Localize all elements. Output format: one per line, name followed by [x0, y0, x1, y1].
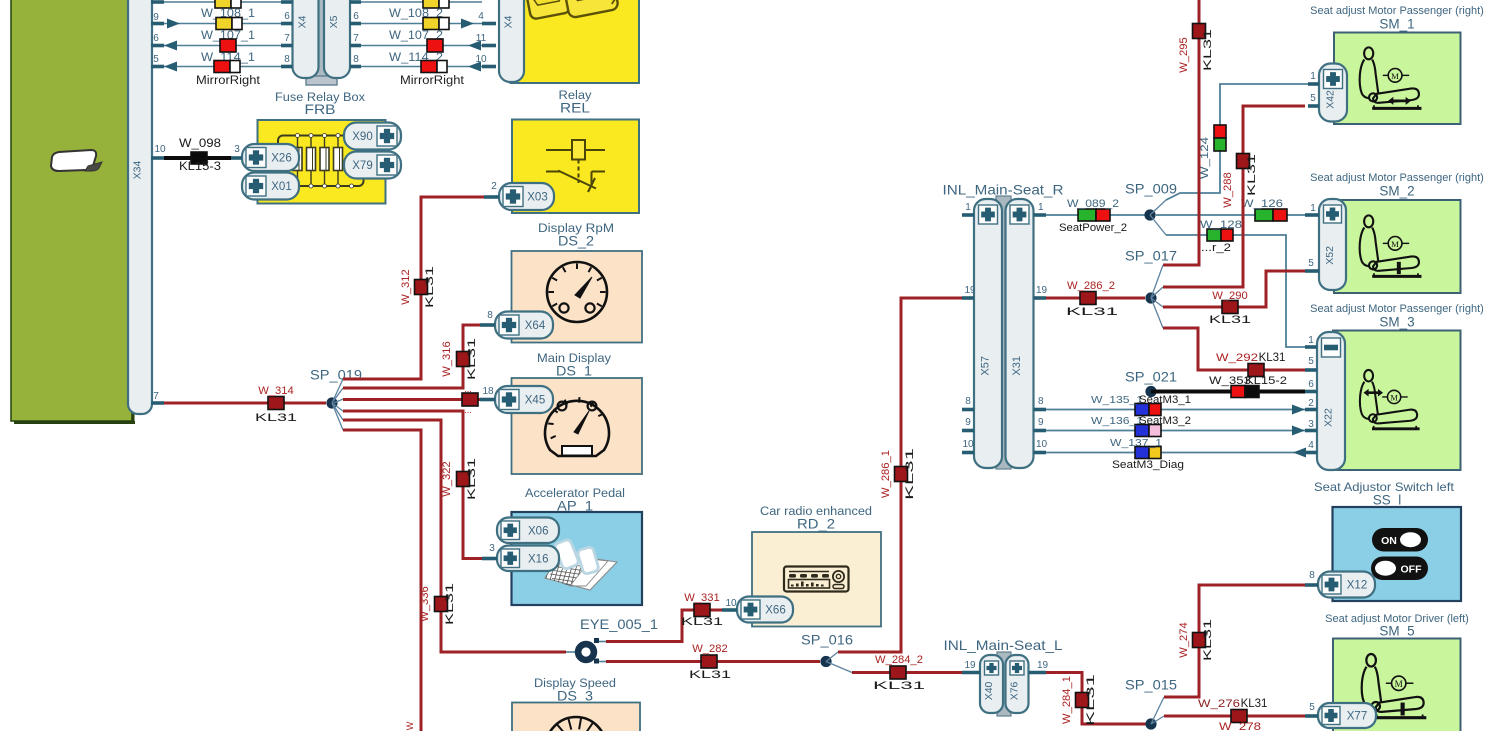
svg-text:Seat adjust Motor Passenger (r: Seat adjust Motor Passenger (right): [1310, 5, 1484, 17]
seat icon SM_2: [1360, 215, 1422, 276]
relay REL body: [512, 120, 639, 214]
svg-text:10: 10: [1036, 439, 1048, 450]
seat motor SM_5 body: [1333, 639, 1461, 734]
svg-text:W_124: W_124: [1199, 137, 1211, 179]
svg-text:W_314: W_314: [258, 385, 293, 397]
wire W_136_1 SeatM3_2 from INL_R pin9 to X22 pin3: [1046, 430, 1305, 432]
car radio RD_2 body: [752, 532, 881, 627]
svg-text:7: 7: [284, 33, 290, 44]
connector X76 (right pill): [1006, 655, 1029, 713]
wire W_290 KL31 from SP_017 to SM_2 X52 pin5: [1163, 271, 1305, 307]
svg-text:9: 9: [1038, 417, 1044, 428]
seat icon SM_5: [1362, 654, 1427, 718]
relay symbol inside REL: [546, 140, 605, 192]
svg-text:7: 7: [353, 33, 359, 44]
svg-text:X90: X90: [352, 131, 372, 143]
svg-text:9: 9: [965, 417, 971, 428]
svg-text:MirrorRight: MirrorRight: [400, 73, 465, 87]
svg-text:19: 19: [1036, 285, 1048, 296]
connector X12 on SS_l: [1318, 572, 1375, 598]
wire W_353 KL15-2 from SP_021 to X22 pin6: [1151, 390, 1305, 394]
svg-text:8: 8: [284, 54, 290, 65]
svg-text:5: 5: [1308, 356, 1314, 367]
svg-text:W_286_2: W_286_2: [1067, 280, 1115, 292]
wire W_126 from SP_009 to SM_2 X52 pin1: [1156, 214, 1305, 216]
svg-text:5: 5: [1310, 93, 1316, 104]
svg-text:Seat adjust Motor Passenger (r: Seat adjust Motor Passenger (right): [1310, 303, 1484, 315]
svg-text:X79: X79: [352, 160, 372, 172]
svg-text:KL31: KL31: [1259, 352, 1286, 364]
wire W_108_1 (yellow/white): [164, 23, 288, 25]
OFF toggle icon: [1371, 557, 1428, 581]
wire W_137_1 SeatM3_Diag from INL_R pin10 to X22 pin4: [1046, 452, 1305, 454]
svg-text:INL_Main-Seat_L: INL_Main-Seat_L: [944, 637, 1063, 653]
radio icon in RD_2: [784, 567, 849, 592]
svg-text:6: 6: [153, 33, 159, 44]
svg-text:5: 5: [1309, 702, 1315, 713]
svg-text:SP_016: SP_016: [801, 633, 853, 648]
wire W_286_1 KL31 from SP_016 to INL_Main-Seat_R pin 19: [838, 298, 962, 652]
svg-text:6: 6: [284, 11, 290, 22]
svg-text:7: 7: [153, 391, 159, 402]
X34 pin (top, cut): [151, 0, 164, 4]
svg-text:X12: X12: [1347, 580, 1367, 592]
svg-text:6: 6: [353, 11, 359, 22]
svg-text:6: 6: [1308, 379, 1314, 390]
svg-text:DS_1: DS_1: [556, 363, 592, 379]
wire W_284_1 KL31 from INL_L to SP_015: [1046, 673, 1146, 725]
svg-text:...: ...: [464, 384, 472, 394]
ON toggle icon: [1372, 528, 1428, 552]
svg-text:W_282: W_282: [692, 643, 727, 655]
svg-text:X64: X64: [525, 320, 546, 332]
wire W_107_1 (red): [164, 45, 288, 47]
svg-text:SP_009: SP_009: [1125, 182, 1177, 197]
svg-text:KL31: KL31: [1209, 314, 1251, 326]
svg-text:3: 3: [489, 543, 495, 554]
svg-text:KL31: KL31: [904, 448, 916, 500]
svg-text:KL31: KL31: [1202, 29, 1214, 71]
svg-text:W_322: W_322: [441, 461, 453, 496]
svg-text:W_089_2: W_089_2: [1067, 198, 1119, 210]
svg-text:X57: X57: [980, 356, 992, 376]
svg-text:KL15-3: KL15-3: [179, 160, 221, 173]
connector X40 (left pill): [980, 655, 1003, 713]
connector X90 on FRB: [344, 123, 401, 150]
svg-text:KL31: KL31: [689, 669, 731, 681]
svg-text:SP_015: SP_015: [1125, 678, 1177, 693]
svg-text:W_290: W_290: [1212, 290, 1247, 302]
connector X22 on SM_3: [1317, 332, 1345, 470]
svg-text:X45: X45: [525, 395, 545, 407]
svg-text:5: 5: [1308, 258, 1314, 269]
wire row top-left (cut) with color block: [164, 1, 288, 3]
wire W_124 from SP_009 to SM_1 X42 pin1: [1166, 84, 1308, 200]
svg-text:SP_017: SP_017: [1125, 249, 1177, 264]
svg-text:KL31: KL31: [255, 412, 297, 424]
FRB inline connector body (gray band): [316, 0, 326, 84]
svg-text:W_098: W_098: [179, 137, 221, 150]
seat icon SM_3: [1360, 370, 1420, 429]
svg-text:10: 10: [475, 54, 487, 65]
svg-text:INL_Main-Seat_R: INL_Main-Seat_R: [943, 182, 1064, 198]
wire W_286_2 KL31 from INL_R pin19 to SP_017: [1046, 297, 1145, 300]
svg-text:X22: X22: [1323, 408, 1335, 427]
SP_019 fan lines: [332, 379, 343, 403]
connector X4 (left pill of FRB top): [293, 0, 319, 78]
svg-text:2: 2: [1308, 398, 1314, 409]
svg-text:ON: ON: [1381, 535, 1397, 547]
svg-text:X26: X26: [271, 153, 291, 165]
wire W_108_2 (yellow/white): [361, 23, 482, 25]
svg-text:8: 8: [1038, 396, 1044, 407]
svg-text:X4: X4: [503, 15, 515, 28]
svg-text:W_137_1: W_137_1: [1110, 437, 1162, 449]
connector X79 on FRB: [344, 152, 401, 179]
svg-text:11: 11: [476, 33, 487, 44]
wire W_114_2 (red/white): [361, 66, 482, 68]
svg-text:X16: X16: [528, 553, 548, 565]
svg-text:KL31: KL31: [1241, 698, 1268, 710]
svg-text:W_331: W_331: [684, 592, 719, 604]
svg-text:3: 3: [234, 144, 240, 155]
gauge icon in DS_3 (cut): [546, 717, 606, 736]
svg-text:W_292: W_292: [1216, 352, 1258, 364]
svg-text:W_284_2: W_284_2: [875, 654, 923, 666]
svg-text:DS_2: DS_2: [558, 233, 594, 249]
seat icon SM_1: [1360, 47, 1422, 108]
wire W_288 KL31 from SP_017 up to SM_1 X42 pin5: [1163, 106, 1305, 287]
svg-text:4: 4: [478, 11, 484, 22]
fuses inside FRB: [297, 136, 299, 187]
svg-text:SP_021: SP_021: [1125, 370, 1177, 385]
svg-text:W_295: W_295: [1178, 37, 1190, 72]
connector X16 on AP_1: [497, 546, 559, 572]
svg-text:X77: X77: [1347, 711, 1367, 723]
svg-text:X66: X66: [765, 605, 785, 617]
wire W_316 KL31 from SP_019 to DS_2 X64: [343, 325, 480, 388]
wire W_276 KL31 from SP_015 to SM_5 X77: [1164, 715, 1305, 718]
svg-text:KL31: KL31: [1246, 154, 1258, 196]
svg-text:RD_2: RD_2: [797, 516, 835, 532]
X4 pin stub top (cut): [281, 0, 293, 4]
relay module box top-right (cut): [511, 0, 640, 83]
svg-text:OFF: OFF: [1401, 564, 1423, 576]
svg-text:W_288: W_288: [1222, 172, 1234, 207]
mirror icon inside ECU: [51, 150, 102, 171]
connector X03 on REL: [499, 183, 554, 210]
svg-text:10: 10: [154, 144, 166, 155]
display DS_1 body: [512, 378, 643, 474]
connector X01 on FRB: [242, 173, 299, 200]
svg-text:10: 10: [725, 598, 737, 609]
display DS_3 body (cut): [512, 703, 640, 736]
svg-text:1: 1: [1310, 71, 1316, 82]
fuse bus loop inside FRB: [278, 136, 364, 187]
svg-text:W: W: [405, 721, 415, 730]
wire W_331 KL31 from EYE to X66: [606, 610, 722, 642]
svg-text:18: 18: [482, 386, 494, 397]
svg-text:KL31: KL31: [444, 583, 456, 625]
wire W_322 KL31 from SP_019 to AP_1 X16: [343, 411, 482, 559]
svg-text:...r_2: ...r_2: [1201, 242, 1231, 254]
wire W_292 KL31 from SP_017 to SM_3 X22 pin5: [1163, 328, 1305, 370]
svg-text:W_135_1: W_135_1: [1091, 394, 1143, 406]
wire W_274 KL31 from SP_015 to SS_l X12: [1164, 585, 1305, 697]
svg-text:SM_1: SM_1: [1379, 17, 1414, 32]
wire W_107_2 (red): [361, 45, 482, 47]
connector X66 on RD_2: [737, 597, 793, 623]
svg-text:W_284_1: W_284_1: [1061, 676, 1073, 724]
connector X06 on AP_1: [497, 518, 559, 544]
svg-text:19: 19: [964, 285, 976, 296]
connector X34 (pill on ECU): [128, 0, 152, 414]
svg-text:...: ...: [464, 405, 472, 415]
display DS_2 body: [512, 251, 643, 343]
svg-text:W_276: W_276: [1198, 698, 1240, 710]
connector X31 (right pill): [1006, 199, 1034, 468]
svg-text:KL31: KL31: [1202, 619, 1214, 661]
svg-text:W_128: W_128: [1200, 219, 1242, 231]
svg-text:SeatPower_2: SeatPower_2: [1059, 222, 1127, 234]
wire W_114_1 (red/white): [164, 66, 288, 68]
svg-text:8: 8: [487, 310, 493, 321]
connector X52 on SM_2: [1319, 199, 1346, 290]
svg-text:SM_2: SM_2: [1379, 184, 1414, 199]
svg-text:W_274: W_274: [1178, 622, 1190, 657]
ECU body left (green box): [11, 0, 132, 421]
svg-text:EYE_005_1: EYE_005_1: [580, 617, 658, 632]
svg-text:X4: X4: [297, 15, 309, 28]
svg-text:X42: X42: [1325, 90, 1337, 109]
svg-text:SeatM3_Diag: SeatM3_Diag: [1112, 459, 1184, 471]
accelerator pedal AP_1 body: [512, 512, 643, 605]
svg-text:REL: REL: [560, 100, 590, 116]
3D relay icon in top-right box: [525, 0, 621, 26]
connector X5 (right pill of FRB top): [324, 0, 350, 78]
svg-text:3: 3: [1308, 419, 1314, 430]
svg-text:X52: X52: [1324, 246, 1336, 265]
svg-text:1: 1: [965, 202, 971, 213]
seat motor SM_2 body: [1334, 200, 1461, 293]
wire W_135_1 SeatM3_1 from INL_R pin8 to X22 pin2: [1046, 409, 1305, 411]
X5 pin stub top (cut): [350, 0, 361, 4]
svg-text:19: 19: [964, 660, 976, 671]
wire W_295 KL31 vertical (cut at top): [1163, 0, 1199, 265]
wire W_098 KL15-3 (black): [164, 156, 231, 160]
seat switch SS_l body: [1333, 507, 1462, 601]
svg-text:5: 5: [153, 54, 159, 65]
svg-text:W_316: W_316: [441, 341, 453, 376]
wire W_284_2 KL31 from SP_016 to INL_Main-Seat_L: [852, 671, 962, 674]
connector X42 on SM_1: [1319, 64, 1347, 122]
svg-text:X06: X06: [528, 525, 548, 537]
svg-text:8: 8: [965, 396, 971, 407]
svg-text:1: 1: [1038, 202, 1044, 213]
wire to DS_1 X45 pin 18 with block: [343, 398, 480, 401]
svg-text:KL31: KL31: [873, 680, 925, 692]
svg-text:X5: X5: [328, 15, 340, 28]
svg-text:W_278: W_278: [1219, 721, 1261, 731]
connector X77 on SM_5: [1318, 703, 1376, 728]
svg-text:1: 1: [1310, 203, 1316, 214]
svg-text:X31: X31: [1011, 356, 1023, 376]
connector X4 pill on top-right box: [499, 0, 524, 82]
wire W_128 ...r_2 from SP_009 to SM_3 X22 pin1: [1166, 235, 1305, 347]
tachometer icon in DS_2: [547, 262, 607, 322]
svg-text:SS_l: SS_l: [1373, 493, 1402, 508]
svg-text:X34: X34: [132, 161, 144, 180]
svg-text:KL31: KL31: [1085, 674, 1097, 726]
svg-text:KL31: KL31: [424, 266, 436, 308]
wire W_336 KL31 from SP_019 to EYE_005_1: [343, 420, 566, 652]
svg-text:X01: X01: [271, 181, 291, 193]
svg-text:DS_3: DS_3: [557, 688, 593, 704]
svg-text:SeatM3_1: SeatM3_1: [1139, 394, 1191, 406]
svg-text:SM_3: SM_3: [1379, 315, 1414, 330]
svg-text:10: 10: [962, 439, 974, 450]
wire W_089_2 SeatPower_2 from INL_R pin1 to SP_009: [1046, 214, 1145, 216]
svg-text:X03: X03: [527, 192, 547, 204]
svg-text:X40: X40: [983, 681, 995, 700]
svg-text:X76: X76: [1009, 681, 1021, 700]
connector X26 on FRB: [242, 144, 299, 171]
svg-text:KL31: KL31: [1066, 306, 1118, 318]
svg-text:8: 8: [1309, 570, 1315, 581]
svg-text:8: 8: [353, 54, 359, 65]
svg-text:W_286_1: W_286_1: [880, 450, 892, 498]
svg-text:2: 2: [491, 181, 497, 192]
svg-text:KL15-2: KL15-2: [1245, 375, 1287, 387]
svg-text:1: 1: [1308, 335, 1314, 346]
svg-text:W_312: W_312: [400, 269, 412, 304]
wire W_314 KL31 from X34 pin7 to SP_019: [164, 402, 326, 405]
svg-text:KL31: KL31: [466, 458, 478, 500]
connector X57 (left pill): [974, 199, 1002, 468]
svg-text:MirrorRight: MirrorRight: [196, 73, 261, 87]
svg-text:FRB: FRB: [305, 101, 336, 117]
svg-text:W_136_1: W_136_1: [1091, 415, 1143, 427]
seat motor SM_1 body: [1334, 33, 1461, 125]
svg-text:4: 4: [1308, 440, 1314, 451]
wire W_312 KL31 from SP_019 to REL X03: [343, 197, 484, 379]
svg-text:9: 9: [153, 12, 159, 23]
connector X64 on DS_2: [495, 312, 553, 339]
svg-text:W_126: W_126: [1241, 198, 1283, 210]
svg-text:SeatM3_2: SeatM3_2: [1139, 415, 1191, 427]
wire from SP_019 down (cut at bottom): [343, 430, 421, 731]
svg-text:KL31: KL31: [466, 338, 478, 380]
speedometer icon in DS_1: [545, 397, 609, 456]
connector X45 on DS_1: [495, 386, 553, 413]
svg-text:KL31: KL31: [681, 616, 723, 628]
seat motor SM_3 body: [1333, 331, 1461, 471]
fuse relay box FRB body: [258, 120, 386, 204]
svg-text:19: 19: [1037, 660, 1049, 671]
wire W_282 KL31 from EYE to SP_016: [606, 660, 820, 663]
svg-text:SM_5: SM_5: [1379, 624, 1414, 639]
svg-text:Seat adjust Motor Passenger (r: Seat adjust Motor Passenger (right): [1310, 172, 1484, 184]
wire row top-right (cut) with color block: [361, 1, 482, 3]
